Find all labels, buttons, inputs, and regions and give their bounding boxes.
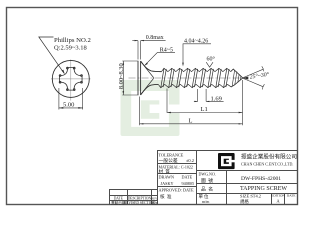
phillips recess cross [59, 67, 82, 90]
svg-text:規格: 規格 [240, 198, 249, 205]
dimension L1 [167, 89, 243, 113]
svg-text:版次: 版次 [151, 200, 157, 205]
svg-text:Phillips NO.2: Phillips NO.2 [54, 37, 91, 44]
svg-text:DATE: DATE [287, 194, 296, 198]
svg-text:EDITION: EDITION [271, 194, 285, 198]
unit cell [199, 193, 296, 205]
svg-text:5.00: 5.00 [63, 101, 74, 108]
svg-text:SIZE ST4.2: SIZE ST4.2 [240, 194, 261, 199]
svg-text:940805: 940805 [182, 181, 195, 186]
svg-text:A: A [276, 199, 280, 204]
threads bottom crest zigzag [158, 84, 227, 87]
head face double line [138, 61, 141, 95]
dimension 0.8max [132, 41, 165, 60]
svg-text:DATE: DATE [182, 175, 193, 180]
tolerance cell [159, 153, 195, 201]
svg-text:一般公差: 一般公差 [159, 157, 178, 164]
dimension 4.04~4.26 [183, 44, 211, 65]
svg-text:8.00~8.30: 8.00~8.30 [118, 63, 125, 89]
svg-text:振盛企業股份有限公司: 振盛企業股份有限公司 [241, 152, 297, 160]
svg-text:±0.2: ±0.2 [186, 158, 194, 163]
revision table [110, 190, 158, 205]
dimension L [140, 80, 243, 125]
point cone [228, 69, 243, 87]
revision table texts [111, 197, 158, 205]
centerline horizontal [51, 78, 91, 80]
table outline [158, 151, 298, 205]
svg-text:DATE: DATE [183, 188, 194, 193]
centerline axis [129, 77, 249, 79]
recess cone lines [141, 62, 154, 94]
dimension 5.00 [59, 88, 83, 110]
dimension 1.69 pitch [194, 89, 224, 101]
svg-text:TAPPING SCREW: TAPPING SCREW [240, 186, 287, 192]
svg-text:DRAWN: DRAWN [159, 175, 174, 180]
vertical divider left col [196, 151, 198, 205]
leader Phillips callout [39, 37, 64, 73]
company logo [218, 153, 236, 169]
svg-text:60°: 60° [207, 56, 216, 63]
centerline vertical [70, 60, 72, 101]
svg-text:1.69: 1.69 [211, 95, 222, 102]
svg-text:圖 號: 圖 號 [201, 177, 213, 184]
svg-text:APPROVED:: APPROVED: [159, 188, 182, 193]
head circle [52, 60, 89, 97]
right rows [197, 170, 298, 172]
bugle flare top [141, 61, 162, 72]
thread flank diagonals [161, 68, 229, 87]
svg-text:品 名: 品 名 [201, 186, 213, 193]
watermark company logo [121, 80, 184, 136]
25~30 degree point angle [243, 66, 265, 89]
svg-text:DWG.NO.: DWG.NO. [199, 172, 216, 177]
svg-text:DW-FPHS-42001: DW-FPHS-42001 [241, 176, 281, 182]
dimension R4~5 [145, 53, 175, 66]
svg-text:0.8max: 0.8max [146, 35, 164, 41]
dwg no row [199, 172, 216, 184]
svg-text:核 准: 核 准 [160, 193, 172, 200]
svg-text:25°~30°: 25°~30° [249, 71, 270, 81]
svg-text:4.04~4.26: 4.04~4.26 [184, 38, 208, 44]
svg-text:CHAN CHEN C.ENT.CO.,LTD.: CHAN CHEN C.ENT.CO.,LTD. [241, 161, 293, 167]
svg-text:R4~5: R4~5 [160, 47, 173, 53]
svg-text:L1: L1 [201, 106, 208, 113]
bottom row dividers [271, 194, 273, 205]
vertical divider label col [226, 171, 228, 205]
svg-text:TOLERANCE: TOLERANCE [159, 153, 184, 158]
svg-text:JASKY: JASKY [161, 181, 174, 186]
svg-text:Q:2.59~3.18: Q:2.59~3.18 [54, 44, 87, 51]
threads top crest zigzag [162, 68, 231, 71]
left col rows [158, 163, 197, 165]
svg-text:L: L [189, 118, 193, 125]
svg-text:m/m: m/m [202, 199, 210, 204]
dimension 8.00~8.30 [122, 61, 138, 95]
bugle flare bottom [141, 84, 159, 95]
cone partial threads [232, 70, 241, 86]
